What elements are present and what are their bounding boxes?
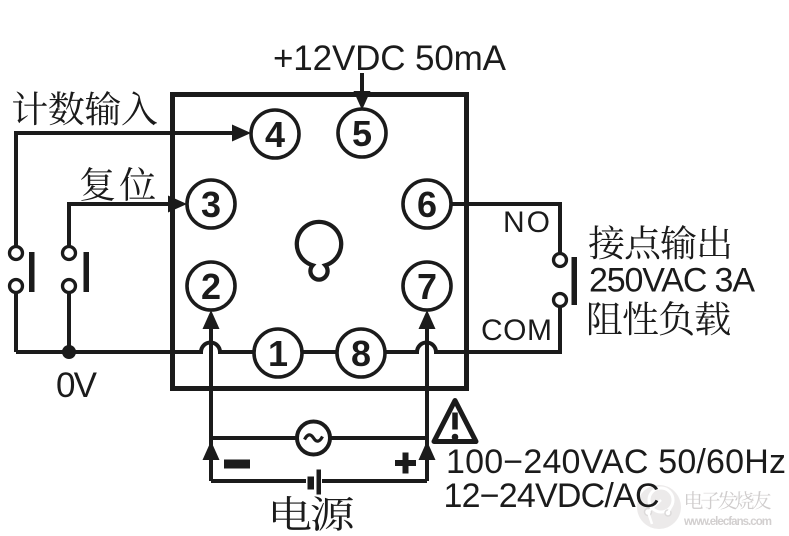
switch: reset pushbutton [63,247,90,293]
svg-text:0V: 0V [56,366,98,405]
svg-text:NO: NO [503,206,550,239]
svg-text:100−240VAC 50/60Hz: 100−240VAC 50/60Hz [446,443,786,481]
svg-text:250VAC 3A: 250VAC 3A [589,262,755,300]
svg-text:5: 5 [352,113,372,154]
wire power left leg to pin 2 [209,329,213,481]
label power-label [273,496,353,531]
pin 3 terminal circle [187,180,235,228]
pin 1 terminal circle [254,329,302,377]
label minus [224,460,250,469]
svg-text:3: 3 [201,184,221,225]
label plus [395,453,416,474]
warning triangle [434,401,476,442]
label count-input [13,91,157,125]
wire reset to pin 3 [69,204,170,247]
wire count-input to pin 4 [16,133,234,247]
keyhole center guide [297,222,341,280]
wire switch1 bottom to 0V rail [14,292,18,352]
arrowhead on right power leg [419,441,436,460]
pin 5 terminal circle [338,109,386,157]
switch: count input pushbutton [10,247,35,293]
svg-text:7: 7 [417,266,437,307]
pin 8 terminal circle [337,329,385,377]
wire AC source line [211,436,427,440]
contact: relay output NO contact [554,254,578,307]
elecfans logo watermark [637,485,681,529]
label reset [81,167,155,201]
battery symbol [308,477,315,490]
label logo-cjk [686,491,771,510]
wire switch2 bottom to 0V junction [67,292,71,352]
pin 7 terminal circle [403,262,451,310]
svg-text:6: 6 [417,184,437,225]
svg-text:www.elecfans.com: www.elecfans.com [683,516,772,528]
label contact-output [589,225,730,259]
svg-text:8: 8 [351,333,371,374]
arrowhead on left power leg [203,441,220,460]
AC source symbol [297,422,330,455]
svg-text:4: 4 [265,114,285,155]
pin 6 terminal circle [403,180,451,228]
wire 0V bottom rail with hops, to COM contact [16,307,560,352]
wire battery line [211,479,427,483]
wire +12VDC supply drop to pin 5 [360,73,364,93]
svg-text:1: 1 [268,333,288,374]
svg-text:2: 2 [201,266,221,307]
wire pin 6 to NO contact [451,204,560,253]
socket body outline [173,95,467,389]
svg-text:COM: COM [481,314,552,347]
pin 4 terminal circle [251,110,299,158]
wire power right leg to pin 7 [425,329,429,481]
pin 2 terminal circle [187,262,235,310]
svg-text:+12VDC 50mA: +12VDC 50mA [273,39,507,78]
node 0V junction dot [62,345,76,359]
label resistive-load [589,301,730,336]
svg-text:12−24VDC/AC: 12−24VDC/AC [444,477,660,515]
